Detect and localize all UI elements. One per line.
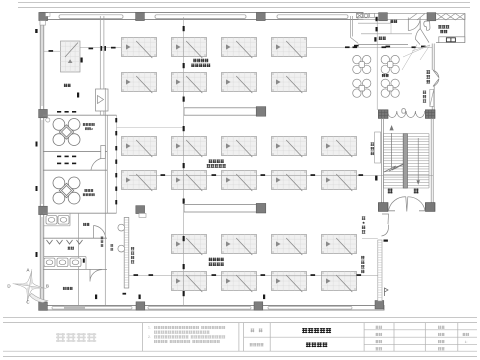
column A4 bottom-left corner bbox=[39, 302, 48, 310]
round table with chairs 2 bbox=[381, 55, 399, 73]
dim tick on grid v9 bbox=[183, 291, 185, 296]
dining table r2c1 bbox=[122, 73, 157, 94]
bar area vertical label bbox=[131, 247, 134, 264]
label zone 3 bbox=[209, 258, 224, 266]
sterilizing appliance bbox=[446, 38, 455, 42]
dim tick left block v1 bbox=[115, 118, 117, 122]
dim tick on grid v3 bbox=[183, 97, 185, 102]
entry area label bbox=[382, 74, 389, 77]
label zone 1 bbox=[191, 59, 210, 67]
ladies sink 2 bbox=[58, 216, 69, 225]
label VIP room 2 bbox=[83, 189, 95, 196]
dim tick x264 y296 bbox=[263, 295, 265, 300]
column C1 top wall bbox=[256, 12, 265, 20]
left wall window band 3 bbox=[41, 217, 43, 300]
stair central divider bbox=[403, 134, 407, 189]
stair bottom double door bbox=[389, 197, 426, 212]
dim tick left block v3 bbox=[115, 146, 117, 150]
svg-text:1:: 1: bbox=[465, 340, 468, 344]
column A3 left wall bbox=[39, 206, 48, 214]
dimension line y275.5 bbox=[129, 275, 380, 277]
label gents toilet bbox=[68, 247, 74, 250]
buffet table top-left (portrait) bbox=[61, 41, 81, 72]
dim tick on grid v7 bbox=[183, 236, 185, 241]
grid line x183.5 bbox=[183, 17, 185, 306]
dining table r5c2 bbox=[172, 235, 207, 256]
bottom wall window strip 1 bbox=[52, 307, 132, 309]
bar left label 2 bbox=[110, 244, 113, 251]
dim text r6 d bbox=[261, 274, 266, 276]
door knob circle VIP1 bbox=[46, 118, 50, 122]
faint line y127 bbox=[117, 127, 184, 129]
dim text row1 clover a bbox=[382, 46, 387, 48]
stair label up bbox=[388, 189, 393, 194]
sheet inner top line bbox=[18, 7, 470, 9]
dining table r3c5 bbox=[322, 137, 357, 158]
dim string y111 bbox=[57, 111, 76, 113]
label sterilizing room bbox=[438, 25, 449, 33]
bottom wall window strip 2 bbox=[148, 307, 251, 309]
kitchen pass partition bbox=[351, 16, 359, 43]
main entrance double door bbox=[433, 70, 439, 86]
dining table r1c3 bbox=[222, 38, 257, 59]
dim tick pass a bbox=[376, 17, 378, 21]
partition double wall x100 bbox=[100, 16, 104, 115]
VIP round table 2 bbox=[53, 177, 80, 204]
svg-text:1.: 1. bbox=[148, 326, 151, 330]
svg-text:B: B bbox=[46, 284, 49, 289]
title table labels bbox=[376, 326, 470, 351]
dimension line y47.5 right segment bbox=[307, 47, 432, 49]
dim tick on grid v4 bbox=[183, 126, 185, 131]
stair column SE bbox=[425, 203, 435, 212]
dining table r5c4 bbox=[272, 235, 307, 256]
door to storage room bbox=[90, 270, 102, 282]
pass divider line bbox=[358, 23, 412, 34]
dim tick left block v7 bbox=[115, 200, 117, 204]
left wall window band 1 bbox=[41, 24, 43, 106]
right exterior wall upper bbox=[432, 44, 434, 71]
dimension line y175.5 bbox=[129, 175, 433, 177]
dim text 1500 a bbox=[49, 50, 54, 52]
svg-text:A: A bbox=[27, 268, 30, 273]
label pass bbox=[379, 37, 386, 40]
dim tick x78 y94 bbox=[77, 93, 79, 98]
bar left label bbox=[101, 237, 104, 247]
dim text 1500 d bbox=[111, 47, 116, 49]
entrance scallop curtain bbox=[388, 109, 425, 118]
dim tick on grid v6 bbox=[183, 199, 185, 204]
pass counter boxes bbox=[363, 13, 374, 17]
top-right hatched counter wall bbox=[358, 14, 465, 21]
side exit label bbox=[362, 216, 366, 233]
dim tick on grid v5 bbox=[183, 163, 185, 168]
pilaster below column A1 bbox=[40, 21, 46, 26]
column B2 interior bbox=[136, 206, 145, 214]
dining table r3c3 bbox=[222, 137, 257, 158]
dim tick on grid v8 bbox=[183, 264, 185, 269]
dim ticks left margin bbox=[35, 29, 37, 257]
dim tick on grid v1 bbox=[183, 26, 185, 31]
right wall glazing bbox=[430, 90, 434, 107]
VIP round table 1 bbox=[53, 119, 80, 146]
round table with chairs 1 bbox=[353, 55, 371, 73]
right exterior wall lower bbox=[432, 86, 434, 110]
label buffet bbox=[64, 84, 71, 87]
top exterior wall bbox=[43, 13, 363, 20]
dining table r1c4 bbox=[272, 38, 307, 59]
label seats bbox=[390, 20, 397, 23]
column B4 bottom wall bbox=[136, 302, 145, 310]
notes paragraph bbox=[148, 326, 225, 343]
dining table r3c4 bbox=[272, 137, 307, 158]
gents sink 1 bbox=[44, 258, 55, 267]
stair treads bbox=[383, 134, 429, 188]
white cap on column A1 bbox=[46, 13, 51, 16]
gents sink 2 bbox=[57, 258, 68, 267]
cell label project name bbox=[250, 343, 264, 346]
stair up arrow bbox=[389, 126, 403, 171]
bottom wall gray strip bbox=[64, 306, 85, 310]
dining table r4c5 bbox=[322, 171, 357, 192]
wall y115 left block bbox=[43, 114, 117, 116]
stair break line bbox=[384, 164, 404, 172]
wall y269 toilets bbox=[43, 268, 107, 270]
stair down arrow bbox=[417, 138, 420, 184]
sterilizing room counter bbox=[439, 37, 465, 43]
dim tick left block v2 bbox=[115, 131, 117, 135]
title block frame bbox=[3, 323, 477, 357]
dining table r2c4 bbox=[272, 73, 307, 94]
dim text r6 e bbox=[311, 274, 316, 276]
dim tick on grid v2 bbox=[183, 63, 185, 68]
dim tick left block v5 bbox=[115, 173, 117, 177]
dim text row1 right a bbox=[345, 46, 350, 48]
top wall window strip 1 bbox=[59, 15, 123, 19]
round table with chairs 4 bbox=[381, 79, 399, 97]
glazing label bbox=[423, 91, 426, 103]
sterilizing room walls bbox=[358, 14, 465, 45]
dim tick x84 y259 bbox=[83, 259, 85, 263]
label ladies toilet bbox=[83, 223, 89, 226]
title block top rule bbox=[3, 317, 477, 319]
gents sink counter bbox=[44, 257, 86, 269]
dining table r4c4 bbox=[272, 171, 307, 192]
dim text r4 b bbox=[212, 174, 217, 176]
dim ticks y45 line bbox=[354, 45, 426, 48]
svg-text:C: C bbox=[26, 300, 29, 305]
column B1 top wall bbox=[136, 12, 145, 20]
partition band wall lower bbox=[184, 205, 257, 212]
title block row lines bbox=[244, 330, 477, 345]
dimension line y47.5 left segment bbox=[80, 47, 121, 49]
dim tick x140 y296 bbox=[139, 295, 141, 300]
corridor door bbox=[96, 89, 109, 111]
compass north arrow bbox=[10, 267, 51, 306]
pilaster below column B2 bbox=[139, 213, 146, 217]
left exterior wall bbox=[40, 13, 44, 311]
dish wash box bbox=[357, 13, 363, 17]
entrance corner fan lines bbox=[402, 45, 430, 71]
bar stool 1 bbox=[118, 224, 125, 231]
cell label drawing name bbox=[251, 329, 263, 333]
grid line x116 bbox=[116, 115, 118, 213]
stair column NW hatched bbox=[378, 110, 388, 119]
side exit door bbox=[382, 214, 389, 236]
wall y213 left block bbox=[43, 212, 117, 214]
sterilizing room sink bbox=[424, 21, 430, 30]
column C2 end of upper band bbox=[256, 107, 266, 117]
dim text r4 e bbox=[359, 174, 364, 176]
dim text row1 clover b bbox=[412, 46, 417, 48]
column C3 end of lower band bbox=[256, 203, 266, 213]
sterilizing room door 1 bbox=[408, 18, 420, 31]
left wall window band 2 bbox=[41, 120, 43, 204]
column A1 (top-left corner) bbox=[39, 12, 48, 20]
dining table r6c5 bbox=[322, 272, 357, 293]
stair label down bbox=[414, 189, 419, 194]
wall x78 toilets bbox=[77, 213, 79, 305]
drawing title text bbox=[302, 328, 331, 333]
stair side strings bbox=[383, 134, 429, 188]
wall y151 left block bbox=[43, 151, 107, 153]
label storage bbox=[63, 287, 73, 290]
partition x105 full bbox=[105, 88, 107, 305]
company logo bbox=[0, 333, 96, 343]
grid line x377 bbox=[376, 21, 378, 110]
svg-text:2.: 2. bbox=[148, 335, 151, 339]
stair dim tick bbox=[375, 176, 377, 181]
dining table r6c2 bbox=[172, 272, 207, 293]
sterilizing room door 2 bbox=[416, 29, 430, 45]
dining table r4c2 bbox=[172, 171, 207, 192]
column A2 left wall bbox=[39, 109, 48, 117]
partition band wall upper bbox=[184, 108, 257, 115]
dimension line y51 far left bbox=[44, 50, 60, 52]
dining table r5c5 bbox=[322, 235, 357, 256]
door to ladies toilet bbox=[94, 226, 106, 239]
top wall window strip 3 bbox=[277, 15, 348, 19]
dining table r2c3 bbox=[222, 73, 257, 94]
dim tick left block v6 bbox=[115, 187, 117, 191]
bottom wall window strip 3 bbox=[268, 307, 352, 309]
dim text row1 right b bbox=[353, 46, 358, 48]
column C4 bottom wall bbox=[254, 302, 263, 310]
dining table r5c3 bbox=[222, 235, 257, 256]
stair enclosure walls bbox=[382, 118, 434, 203]
dim text r6 b bbox=[149, 274, 154, 276]
project title text bbox=[306, 342, 327, 347]
dim tick pass c bbox=[374, 37, 376, 41]
stair column NE hatched bbox=[425, 110, 435, 119]
dim tick near buffet bbox=[81, 58, 83, 63]
dining table r3c1 bbox=[122, 137, 157, 158]
dim tick x123 y293 bbox=[123, 293, 127, 295]
dim tick x96 y296 bbox=[95, 295, 97, 300]
dim text r6 f bbox=[357, 274, 362, 276]
gents sink 3 bbox=[70, 258, 81, 267]
grid tick pair x100 bbox=[101, 46, 106, 51]
dining table r4c1 bbox=[122, 171, 157, 192]
dim tick pass b bbox=[376, 27, 378, 31]
column E1 top wall (top-right) bbox=[427, 13, 436, 21]
side wall hatched strip bbox=[378, 240, 382, 301]
dim text r4 d bbox=[311, 174, 316, 176]
svg-text:★: ★ bbox=[362, 221, 366, 225]
dim text 1500 e bbox=[89, 48, 94, 50]
dining table r6c3 bbox=[222, 272, 257, 293]
urinals bbox=[47, 240, 83, 244]
column D1 top wall (stair left) bbox=[379, 13, 388, 21]
dining table r2c2 bbox=[172, 73, 207, 94]
flag mark bottom right bbox=[385, 288, 389, 296]
dim text r4 c bbox=[261, 174, 266, 176]
ladies sink counter bbox=[44, 213, 70, 226]
dim text r6 c bbox=[212, 274, 217, 276]
dim text r4 a bbox=[161, 174, 166, 176]
side wall label bbox=[361, 256, 365, 273]
stair niche bbox=[375, 132, 381, 163]
dim string y156 bbox=[57, 156, 76, 158]
label VIP room 1 bbox=[83, 123, 95, 131]
stair column SW bbox=[378, 203, 388, 212]
dining table r3c2 bbox=[172, 137, 207, 158]
bar stool 2 bbox=[118, 245, 125, 252]
bar counter strip bbox=[124, 218, 129, 289]
dim string y163 bbox=[57, 163, 76, 165]
column F4 bottom-right bbox=[375, 301, 384, 309]
main entrance label bbox=[426, 70, 430, 83]
bottom exterior wall bbox=[43, 306, 384, 311]
ladies sink 1 bbox=[46, 216, 57, 225]
title block verticals bbox=[143, 323, 458, 352]
round table with chairs 3 bbox=[353, 79, 371, 97]
top wall window strip 2 bbox=[155, 15, 246, 19]
dim text r6 a bbox=[134, 274, 139, 276]
dining table r1c1 bbox=[122, 38, 157, 59]
door to VIP room 2 bbox=[91, 146, 105, 171]
pass partition line bbox=[390, 22, 392, 34]
dim tick left block v4 bbox=[115, 160, 117, 164]
svg-text:D: D bbox=[7, 284, 10, 289]
wall y238 toilets bbox=[43, 237, 107, 239]
stair room label bbox=[371, 142, 375, 155]
side dim tick bbox=[384, 240, 388, 242]
dining table r4c3 bbox=[222, 171, 257, 192]
dining table r6c4 bbox=[272, 272, 307, 293]
sheet top border line bbox=[18, 2, 470, 4]
dining table r1c2 bbox=[172, 38, 207, 59]
label zone 2 bbox=[207, 159, 226, 167]
side short line bbox=[362, 238, 378, 240]
wall y170 left block bbox=[43, 169, 107, 171]
stair bottom wall stubs bbox=[388, 210, 425, 212]
